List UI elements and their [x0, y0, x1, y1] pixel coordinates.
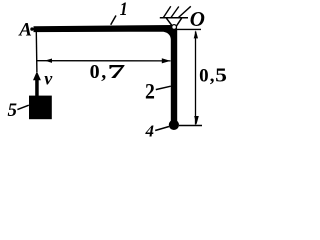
leader for label 5	[17, 105, 28, 109]
support hatch lines	[163, 6, 191, 17]
cord from A down to weight	[35, 32, 38, 73]
dimension line 0,5	[195, 32, 197, 125]
leader for label 4	[155, 127, 169, 131]
top reference line	[177, 28, 201, 30]
joint dot 4	[169, 120, 179, 130]
svg-text:O: O	[190, 7, 205, 31]
svg-text:0: 0	[90, 61, 100, 83]
svg-text:v: v	[44, 69, 53, 89]
svg-text:0: 0	[199, 66, 209, 87]
dimension line 0,7	[36, 60, 170, 62]
support V legs	[166, 18, 181, 27]
svg-text:7: 7	[107, 61, 125, 83]
svg-text:,: ,	[210, 66, 215, 87]
svg-text:4: 4	[145, 121, 155, 140]
bar 1 and bar 2 (L-shaped rod)	[34, 25, 178, 122]
down arrowhead of 0,5	[194, 116, 199, 125]
svg-text:5: 5	[8, 100, 18, 121]
pin circle at O	[172, 25, 177, 30]
leader for label 1	[111, 16, 116, 25]
svg-text:5: 5	[215, 66, 227, 87]
left arrowhead of 0,7	[45, 59, 52, 63]
bottom reference line	[179, 125, 202, 127]
velocity arrow v	[33, 71, 41, 80]
svg-text:2: 2	[145, 78, 155, 103]
leader for label 2	[156, 86, 171, 89]
support base line at O	[160, 17, 188, 19]
svg-text:1: 1	[120, 0, 128, 19]
svg-text:A: A	[18, 20, 32, 41]
right arrowhead of 0,7	[162, 58, 171, 63]
up arrowhead of 0,5	[194, 30, 198, 38]
weight square 5	[29, 96, 52, 120]
dot at A (left end of bar)	[30, 27, 33, 30]
svg-text:,: ,	[101, 61, 106, 83]
